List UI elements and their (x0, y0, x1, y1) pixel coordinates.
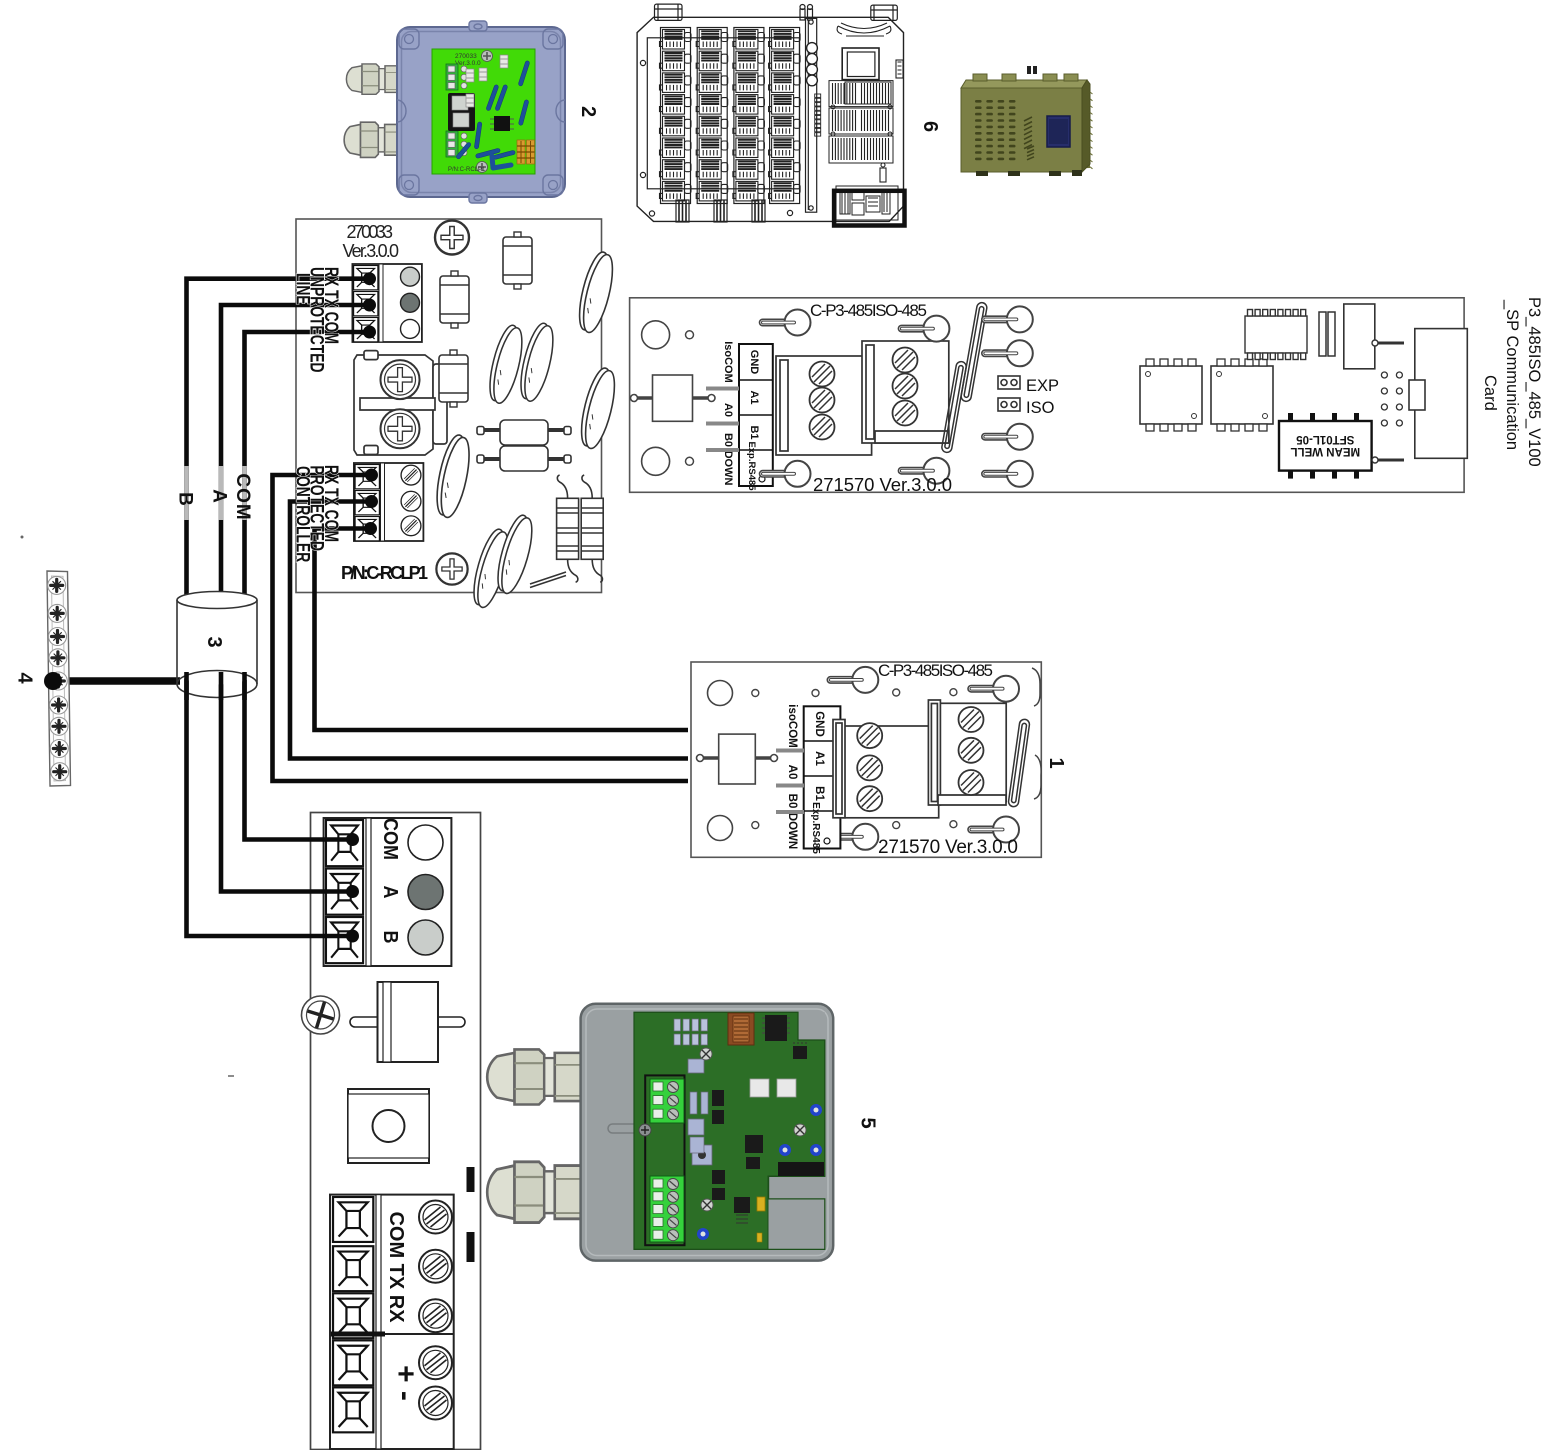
edge connector (1409, 329, 1467, 459)
terminal block left (776, 356, 872, 455)
svg-text:1: 1 (1045, 757, 1067, 768)
wire: unprotected TX to terminal A (221, 305, 370, 892)
svg-text:270033: 270033 (455, 53, 477, 60)
IO connector blocks (829, 81, 893, 163)
svg-text:B: B (175, 492, 196, 506)
wire label gaps (187, 466, 245, 520)
svg-text:C-P3-485ISO-485: C-P3-485ISO-485 (810, 301, 927, 320)
opto IC footprints (1140, 359, 1202, 431)
svg-text:isoCOM: isoCOM (786, 704, 798, 747)
svg-text:B: B (379, 931, 401, 944)
svg-text:B1: B1 (748, 425, 760, 439)
terminal block mid (833, 720, 939, 818)
svg-text:Exp.RS485: Exp.RS485 (810, 802, 821, 854)
svg-text:A1: A1 (748, 390, 760, 404)
svg-text:EXP: EXP (1026, 377, 1059, 395)
diode with leads (697, 734, 778, 784)
terminal block right (928, 700, 1006, 805)
wire: protected COM to board1 (315, 529, 689, 731)
svg-text:A0: A0 (786, 765, 798, 780)
relay (1344, 304, 1375, 369)
comm card slot highlight (836, 186, 898, 220)
wire: protected TX to board1 (290, 502, 688, 759)
transmitter box item 5 (487, 1004, 833, 1261)
unprotected line terminal (352, 264, 422, 342)
svg-text:3: 3 (203, 636, 225, 647)
wire: unprotected COM to terminal COM (245, 332, 370, 840)
svg-text:ISO: ISO (1026, 399, 1055, 417)
svg-text:B0: B0 (786, 794, 798, 809)
electrolytic cap (1319, 312, 1335, 356)
svg-text:B1: B1 (813, 786, 825, 801)
svg-text:271570 Ver.3.0.0: 271570 Ver.3.0.0 (878, 837, 1018, 858)
svg-text:271570 Ver.3.0.0: 271570 Ver.3.0.0 (813, 474, 952, 495)
wire: ground bus to cable (53, 677, 180, 685)
dual fuse component (477, 420, 571, 471)
svg-text:COM: COM (232, 473, 253, 520)
DIP16 footprint (1245, 310, 1307, 360)
line clamp terminal (354, 351, 447, 455)
axial resistors with bent leads (557, 475, 579, 582)
svg-text:DOWN: DOWN (722, 451, 734, 486)
MEAN WELL power module (1279, 413, 1372, 479)
wire: unprotected RX to terminal B (187, 279, 689, 936)
inner PCB (634, 1012, 825, 1249)
edge fingers (1032, 668, 1041, 799)
isolation slot (1008, 719, 1030, 808)
terminal labels (292, 267, 342, 373)
diode (350, 982, 465, 1062)
svg-text:4: 4 (14, 672, 36, 684)
svg-text:IsoCOM: IsoCOM (722, 341, 734, 383)
varistor discs (573, 250, 618, 335)
SP communication card 271570 (630, 298, 1468, 495)
svg-text:Exp.RS485: Exp.RS485 (746, 441, 757, 491)
svg-text:P3_485ISO_485_V100: P3_485ISO_485_V100 (1525, 297, 1543, 467)
panel screw (302, 996, 340, 1034)
svg-text:A: A (209, 489, 230, 503)
svg-text:A: A (379, 886, 401, 899)
clamp block (348, 1089, 429, 1163)
svg-text:+ -: + - (389, 1365, 422, 1401)
svg-text:CONTROLLER: CONTROLLER (292, 466, 314, 562)
central rail (806, 18, 817, 212)
svg-text:COM TX RX: COM TX RX (385, 1211, 407, 1323)
pin labels strip (706, 341, 773, 491)
junction box item 2 (344, 21, 565, 203)
isolated RS485 board item 1 (691, 661, 1067, 858)
indicator circles (807, 43, 818, 86)
svg-text:A0: A0 (722, 403, 734, 417)
capacitors (503, 232, 532, 289)
display (842, 48, 879, 80)
svg-text:P/N:C-RCLP1: P/N:C-RCLP1 (448, 167, 486, 173)
junction dots (346, 272, 378, 942)
svg-text:_SP Communication: _SP Communication (1503, 299, 1521, 450)
diode with leads (631, 375, 716, 421)
svg-text:C-P3-485ISO-485: C-P3-485ISO-485 (878, 661, 993, 680)
pin labels strip (776, 704, 840, 854)
svg-text:MEAN WELLSFT01L-05: MEAN WELLSFT01L-05 (1290, 433, 1360, 457)
svg-text:2: 2 (577, 106, 599, 117)
bottom connectors (676, 200, 765, 222)
svg-text:COM: COM (379, 818, 401, 860)
relay banks (660, 28, 692, 204)
ground bus bar item 4 (14, 571, 71, 786)
svg-text:6: 6 (919, 121, 941, 132)
tilted lead (530, 572, 566, 584)
EXP ISO jumpers (998, 376, 1020, 411)
svg-text:270033: 270033 (347, 222, 394, 242)
svg-text:LINE: LINE (292, 273, 314, 305)
protected controller terminal (354, 463, 424, 541)
cable conduit item 3 (177, 592, 257, 698)
surge protector PCB 270033 C-RCLP1 (296, 219, 621, 610)
COM A B terminal (324, 818, 452, 966)
COM TX RX +- terminal (330, 1195, 454, 1449)
svg-text:A1: A1 (813, 751, 825, 766)
terminal block right (862, 341, 949, 443)
svg-text:Ver.3.0.0: Ver.3.0.0 (455, 60, 481, 67)
svg-text:5: 5 (857, 1117, 879, 1128)
svg-text:GND: GND (813, 711, 825, 737)
svg-text:Card: Card (1481, 375, 1499, 411)
wire: protected RX to board1 (273, 475, 689, 781)
svg-text:Ver.3.0.0: Ver.3.0.0 (343, 241, 400, 261)
olive control module (961, 66, 1093, 176)
green PCB (432, 49, 535, 174)
svg-text:GND: GND (748, 350, 760, 375)
mounting screws (760, 310, 811, 336)
controller unit item 6 (637, 4, 903, 221)
svg-text:B0: B0 (722, 433, 734, 447)
svg-text:P/N:C-RCLP1: P/N:C-RCLP1 (341, 563, 428, 583)
battery holder (837, 23, 891, 36)
controller terminal panel (302, 813, 481, 1450)
stray dot (21, 536, 24, 539)
isolation slots (941, 302, 988, 453)
svg-text:DOWN: DOWN (786, 813, 798, 849)
